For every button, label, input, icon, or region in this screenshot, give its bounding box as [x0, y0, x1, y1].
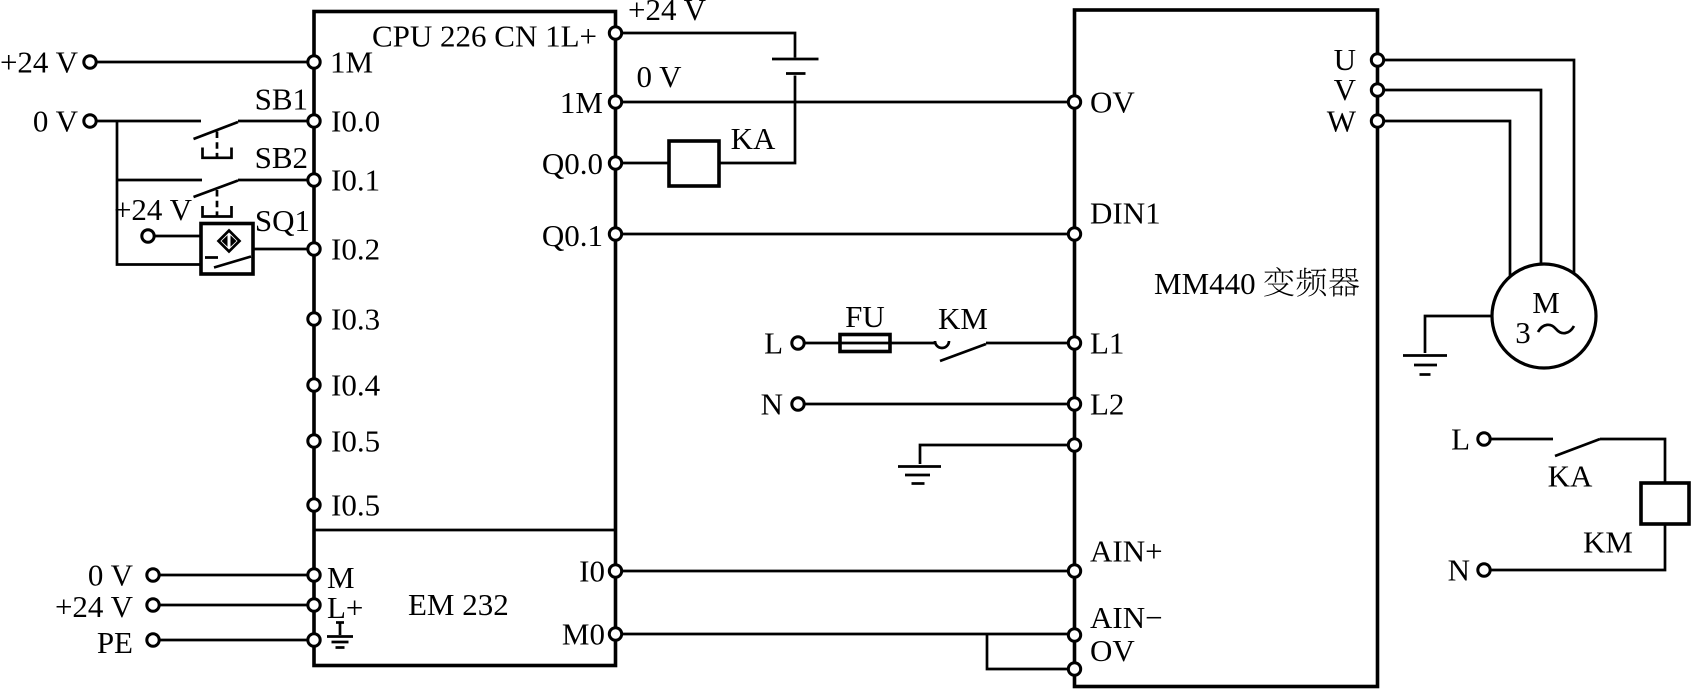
svg-text:SQ1: SQ1 — [255, 203, 310, 238]
terminal I0 — [609, 565, 621, 577]
ground PE symbol — [327, 623, 353, 648]
wire +24V to SQ1 — [154, 235, 200, 238]
svg-text:EM 232: EM 232 — [408, 587, 509, 622]
SQ1 sensor wedge left — [222, 235, 228, 247]
terminal 0V bottom — [147, 569, 159, 581]
svg-text:SB2: SB2 — [255, 140, 308, 175]
svg-text:M: M — [1532, 285, 1560, 320]
svg-text:FU: FU — [845, 299, 885, 334]
svg-text:L: L — [764, 326, 783, 361]
svg-text:0 V: 0 V — [33, 104, 79, 139]
svg-text:0 V: 0 V — [88, 558, 134, 593]
terminal AIN- — [1068, 629, 1080, 641]
wire +24V to 1M — [96, 61, 314, 64]
svg-text:PE: PE — [97, 625, 133, 660]
wire L to KA contact — [1490, 438, 1553, 441]
pushbutton SB2 blade — [194, 181, 239, 198]
wire 1L+ to battery — [616, 33, 796, 58]
svg-text:OV: OV — [1090, 85, 1135, 120]
terminal I0.5 second — [308, 499, 320, 511]
terminal I0.4 — [308, 379, 320, 391]
terminal M0 — [609, 628, 621, 640]
svg-text:MM440: MM440 — [1154, 266, 1256, 301]
terminal 0V — [84, 115, 96, 127]
terminal gnd — [1068, 439, 1080, 451]
svg-text:KA: KA — [1548, 459, 1593, 494]
wire SB2 feed — [117, 179, 202, 182]
terminal +24V — [84, 56, 96, 68]
wire 0V to SB1 fixed contact — [96, 120, 201, 123]
pushbutton SB2 link dashed — [216, 190, 219, 217]
wire KM to L1 — [986, 342, 1075, 345]
pushbutton SB1 link dashed — [216, 132, 219, 159]
SQ1 contact — [205, 257, 251, 268]
wire battery to KA coil — [719, 76, 795, 164]
wire Q0.1 to DIN1 — [616, 233, 1075, 236]
wire M0 to AIN- — [616, 633, 1075, 636]
contactor KM fixed contact hook — [935, 341, 949, 348]
svg-text:KA: KA — [731, 121, 776, 156]
svg-text:L: L — [1451, 422, 1470, 457]
svg-text:I0.5: I0.5 — [331, 488, 380, 523]
EM 232 divider line — [314, 529, 616, 532]
wire V to motor — [1378, 90, 1542, 280]
terminal DIN1 — [1068, 228, 1080, 240]
battery short plate — [786, 72, 806, 75]
svg-text:I0: I0 — [579, 554, 605, 589]
pushbutton SB2 actuator — [203, 206, 232, 217]
wire SB1 to I0.0 — [238, 120, 314, 123]
wire I0 to AIN+ — [616, 570, 1075, 573]
svg-text:+24 V: +24 V — [0, 45, 79, 80]
wire N to L2 — [804, 403, 1075, 406]
terminal Q0.1 — [609, 228, 621, 240]
svg-text:OV: OV — [1090, 633, 1135, 668]
terminal U — [1371, 54, 1383, 66]
terminal AIN+ — [1068, 565, 1080, 577]
tilde mark — [1538, 325, 1574, 333]
svg-text:Q0.1: Q0.1 — [542, 218, 603, 253]
svg-text:KM: KM — [1583, 525, 1633, 560]
svg-text:+24 V: +24 V — [628, 0, 707, 27]
terminal +24V bottom — [147, 599, 159, 611]
contactor coil KM — [1641, 483, 1689, 524]
terminal 1L+ — [609, 27, 621, 39]
svg-text:AIN+: AIN+ — [1090, 534, 1163, 569]
wire KA to KM coil — [1600, 439, 1665, 483]
terminal L+ — [308, 599, 320, 611]
SQ1 sensor wedge right — [231, 235, 237, 247]
wire motor to ground — [1425, 316, 1492, 353]
wire Q0.0 to KA coil — [616, 162, 670, 165]
svg-text:+24 V: +24 V — [55, 589, 134, 624]
wire W to motor — [1378, 121, 1511, 290]
wire L to fuse to KM contact — [804, 342, 935, 345]
MM440 inverter box outline — [1075, 10, 1378, 687]
wire ground terminal — [920, 445, 1075, 464]
wire PE — [159, 639, 314, 642]
proximity switch SQ1 box — [201, 224, 253, 275]
wire SB2 to I0.1 — [238, 179, 314, 182]
terminal I0.3 — [308, 313, 320, 325]
terminal 1M — [308, 56, 320, 68]
wire 1M to OV — [616, 101, 1075, 104]
glyph 变 — [1264, 267, 1294, 297]
svg-text:AIN−: AIN− — [1090, 600, 1163, 635]
wire jumper AIN- to OV — [987, 634, 1075, 669]
wire 0V to M — [159, 574, 314, 577]
terminal L fu — [792, 337, 804, 349]
wire SQ1 to I0.2 — [253, 248, 314, 251]
svg-text:3: 3 — [1515, 315, 1531, 350]
terminal W — [1371, 115, 1383, 127]
svg-text:DIN1: DIN1 — [1090, 196, 1161, 231]
ground motor symbol — [1403, 356, 1447, 375]
svg-text:I0.2: I0.2 — [331, 232, 380, 267]
terminal PE — [147, 634, 159, 646]
terminal OV2 — [1068, 663, 1080, 675]
svg-text:I0.4: I0.4 — [331, 368, 381, 403]
terminal I0.2 — [308, 243, 320, 255]
terminal N fu — [792, 398, 804, 410]
terminal +24V sq1 — [142, 230, 154, 242]
glyph 器 — [1329, 268, 1359, 297]
svg-text:I0.1: I0.1 — [331, 163, 380, 198]
contact KA blade — [1555, 439, 1600, 456]
terminal L2 — [1068, 398, 1080, 410]
terminal N ka — [1478, 564, 1490, 576]
svg-text:I0.5: I0.5 — [331, 424, 380, 459]
svg-text:1M: 1M — [560, 85, 603, 120]
SQ1 sensor diamond — [219, 231, 240, 252]
terminal V — [1371, 84, 1383, 96]
fuse FU — [840, 335, 890, 352]
terminal I0.5 — [308, 435, 320, 447]
svg-text:KM: KM — [938, 301, 988, 336]
glyph 频 — [1297, 268, 1327, 297]
svg-text:W: W — [1327, 104, 1357, 139]
ground mid symbol — [898, 467, 941, 484]
battery long plate — [772, 58, 819, 61]
svg-text:L2: L2 — [1090, 387, 1124, 422]
svg-text:N: N — [761, 387, 783, 422]
svg-text:+24 V: +24 V — [114, 192, 193, 227]
svg-text:I0.0: I0.0 — [331, 104, 380, 139]
pushbutton SB1 blade — [194, 122, 239, 139]
svg-text:M0: M0 — [562, 617, 605, 652]
relay coil KA — [669, 141, 719, 186]
contactor KM blade — [940, 344, 986, 361]
terminal I0.0 — [308, 115, 320, 127]
wire KM coil to N — [1490, 524, 1665, 570]
terminal L1 — [1068, 337, 1080, 349]
pushbutton SB1 actuator — [203, 148, 232, 158]
terminal M — [308, 569, 320, 581]
wire 0V branch vertical — [117, 121, 201, 265]
PLC box CPU 226 CN outline — [314, 12, 616, 666]
svg-text:L1: L1 — [1090, 326, 1124, 361]
terminal OV — [1068, 96, 1080, 108]
terminal I0.1 — [308, 174, 320, 186]
motor M circle — [1492, 264, 1596, 368]
svg-text:SB1: SB1 — [255, 82, 308, 117]
terminal 1M right — [609, 96, 621, 108]
terminal PE in — [308, 634, 320, 646]
svg-text:N: N — [1448, 553, 1470, 588]
terminal L ka — [1478, 433, 1490, 445]
terminal Q0.0 — [609, 157, 621, 169]
svg-text:0 V: 0 V — [636, 59, 682, 94]
svg-text:I0.3: I0.3 — [331, 302, 380, 337]
svg-text:V: V — [1334, 72, 1357, 107]
svg-text:CPU 226 CN 1L+: CPU 226 CN 1L+ — [372, 19, 597, 54]
svg-text:Q0.0: Q0.0 — [542, 146, 603, 181]
wire +24V to L+ — [159, 604, 314, 607]
svg-text:1M: 1M — [330, 45, 373, 80]
wire U to motor — [1378, 60, 1575, 290]
svg-text:L+: L+ — [327, 590, 363, 625]
